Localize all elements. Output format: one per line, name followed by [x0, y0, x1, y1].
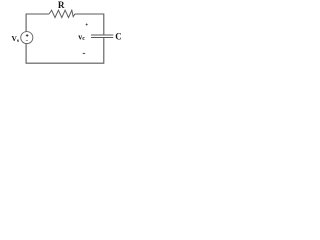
capacitor C1 top plate	[91, 34, 113, 36]
plus polarity mark for vc	[86, 23, 88, 25]
wire top-left segment	[26, 14, 49, 32]
minus sign inside source	[26, 40, 28, 42]
svg-text:C: C	[115, 32, 121, 42]
capacitor C1 bottom plate	[91, 37, 113, 39]
minus polarity mark for vc	[83, 52, 85, 54]
svg-text:R: R	[58, 0, 65, 10]
wire left-bottom segment	[26, 38, 104, 63]
plus sign inside source	[26, 34, 29, 37]
wire top-right segment	[75, 14, 104, 35]
svg-text:Vs: Vs	[12, 34, 20, 44]
voltage source U1 circle	[21, 32, 33, 44]
svg-text:vc: vc	[78, 32, 85, 42]
resistor R1 zigzag	[49, 10, 75, 17]
